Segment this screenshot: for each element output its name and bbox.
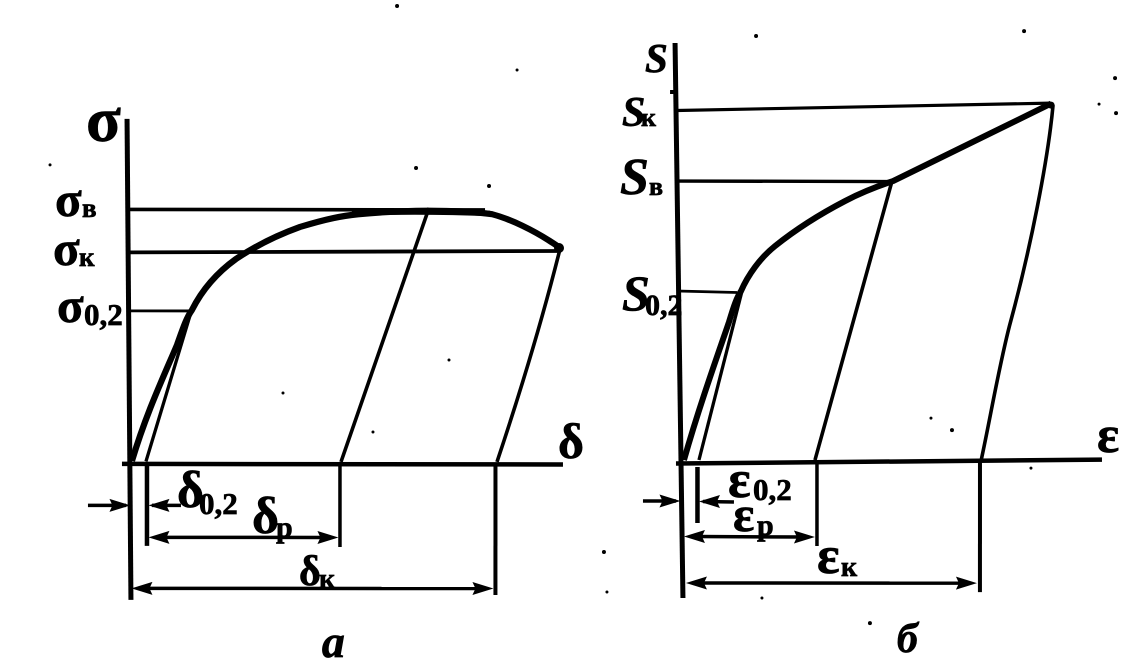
sigma_k line — [129, 251, 558, 253]
plateau reinforcement — [352, 212, 490, 213]
svg-text:в: в — [82, 193, 97, 223]
arrowheads chart a — [109, 243, 564, 595]
svg-text:р: р — [276, 511, 293, 544]
peak junction blob — [1048, 102, 1055, 109]
chart b : true stress-strain diagram — [643, 43, 1102, 598]
svg-text:0,2: 0,2 — [645, 289, 683, 322]
svg-text:σ: σ — [57, 278, 84, 333]
unloading line 2 — [981, 105, 1053, 461]
S_02 line — [677, 291, 737, 293]
svg-text:б: б — [897, 616, 920, 662]
unloading line 1 — [341, 208, 429, 462]
extension line D — [493, 464, 497, 595]
extension line eps_k — [978, 461, 982, 592]
unloading line 1 — [815, 181, 892, 460]
sigma_02 line — [129, 310, 191, 313]
svg-text:а: а — [322, 616, 345, 667]
S_v line — [677, 179, 893, 183]
dim row delta02 — [88, 504, 126, 508]
offset 0.2 line — [146, 309, 192, 462]
svg-text:δ: δ — [252, 488, 279, 545]
labels chart b — [620, 35, 1119, 662]
chart a : engineering stress-strain diagram — [88, 119, 563, 600]
svg-text:ε: ε — [733, 486, 754, 542]
x-axis delta — [122, 462, 563, 467]
arrowheads chart b — [659, 495, 977, 590]
svg-text:σ: σ — [86, 84, 121, 155]
svg-text:0,2: 0,2 — [84, 297, 123, 332]
svg-text:в: в — [649, 172, 663, 201]
svg-text:0,2: 0,2 — [199, 486, 238, 521]
extension tick eps02 — [695, 467, 700, 523]
dim row eps_k — [698, 581, 966, 585]
extension line B — [145, 464, 150, 546]
svg-text:к: к — [319, 564, 336, 595]
svg-text:к: к — [641, 103, 656, 132]
main curve — [132, 211, 560, 461]
extension line C — [338, 464, 342, 547]
dim row eps_p — [697, 535, 804, 539]
offset 0.2 line — [699, 291, 742, 460]
svg-text:р: р — [757, 509, 774, 542]
svg-text:0,2: 0,2 — [753, 472, 792, 507]
y-axis sigma — [127, 119, 131, 600]
unloading line 2 — [497, 249, 560, 462]
x-axis epsilon — [676, 460, 1102, 464]
svg-text:σ: σ — [53, 221, 80, 276]
end blob — [554, 243, 564, 253]
main curve — [684, 104, 1051, 461]
sigma_v line — [129, 208, 485, 212]
dim row eps02 — [643, 499, 676, 503]
svg-text:σ: σ — [55, 172, 82, 227]
labels chart a — [53, 84, 584, 667]
extension line eps_p — [815, 463, 819, 546]
svg-text:S: S — [620, 149, 649, 206]
y-axis S — [675, 43, 683, 598]
S_k line — [677, 103, 1051, 111]
svg-text:δ: δ — [558, 413, 584, 469]
svg-text:δ: δ — [299, 549, 321, 595]
svg-text:к: к — [79, 242, 95, 272]
svg-text:к: к — [841, 552, 858, 583]
dim row delta_k — [143, 587, 483, 591]
svg-text:ε: ε — [1097, 407, 1119, 464]
svg-text:ε: ε — [817, 527, 840, 585]
dim row delta_p — [160, 536, 330, 540]
svg-text:S: S — [645, 35, 668, 81]
tick on axis — [670, 90, 676, 94]
